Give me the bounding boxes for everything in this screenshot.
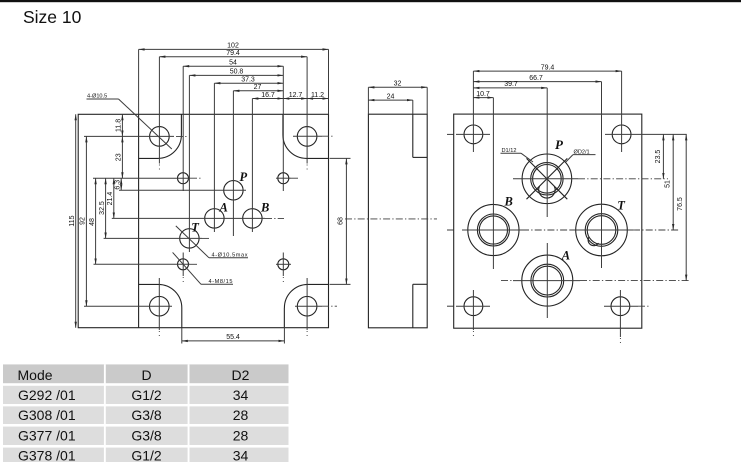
svg-text:G292 /01: G292 /01 [18, 387, 76, 403]
svg-text:D: D [141, 367, 151, 383]
svg-text:16.7: 16.7 [261, 92, 275, 99]
svg-text:G377 /01: G377 /01 [18, 427, 76, 443]
svg-text:54: 54 [229, 60, 237, 67]
svg-text:B: B [504, 194, 513, 208]
svg-text:A: A [561, 249, 570, 263]
svg-text:D2: D2 [232, 367, 250, 383]
svg-text:B: B [260, 200, 269, 214]
svg-text:G378 /01: G378 /01 [18, 448, 76, 462]
svg-text:12.7: 12.7 [289, 92, 303, 99]
svg-text:21.4: 21.4 [107, 192, 114, 206]
svg-text:Mode: Mode [18, 367, 53, 383]
svg-text:50.8: 50.8 [230, 69, 244, 76]
svg-text:11.2: 11.2 [311, 92, 324, 99]
svg-text:32: 32 [394, 81, 402, 88]
svg-text:23: 23 [116, 153, 123, 161]
svg-text:G1/2: G1/2 [131, 387, 162, 403]
svg-text:48: 48 [89, 218, 96, 226]
svg-text:76.5: 76.5 [677, 197, 684, 211]
svg-text:115: 115 [69, 215, 76, 226]
svg-text:G308 /01: G308 /01 [18, 407, 76, 423]
svg-text:P: P [555, 137, 564, 152]
svg-text:34: 34 [233, 387, 249, 403]
svg-text:A: A [219, 200, 228, 214]
svg-text:55.4: 55.4 [226, 334, 240, 341]
svg-text:39.7: 39.7 [504, 81, 518, 88]
svg-text:T: T [191, 221, 200, 235]
svg-text:32.5: 32.5 [99, 201, 106, 215]
svg-text:28: 28 [233, 407, 249, 423]
svg-text:G1/2: G1/2 [131, 448, 162, 462]
svg-text:66.7: 66.7 [529, 75, 543, 82]
svg-text:92: 92 [79, 217, 86, 225]
svg-text:37.3: 37.3 [241, 77, 255, 84]
svg-text:Size 10: Size 10 [23, 7, 82, 27]
svg-text:34: 34 [233, 448, 249, 462]
svg-text:11.8: 11.8 [116, 119, 123, 132]
svg-text:68: 68 [338, 217, 345, 225]
svg-text:51: 51 [665, 180, 672, 188]
svg-text:79.4: 79.4 [226, 50, 240, 57]
svg-text:6.3: 6.3 [115, 180, 122, 190]
svg-text:10.7: 10.7 [476, 91, 490, 98]
svg-text:24: 24 [387, 93, 395, 100]
svg-text:79.4: 79.4 [541, 64, 555, 71]
svg-text:23.5: 23.5 [655, 150, 662, 164]
svg-text:P: P [240, 170, 248, 184]
svg-text:G3/8: G3/8 [131, 427, 162, 443]
svg-text:28: 28 [233, 427, 249, 443]
svg-text:G3/8: G3/8 [131, 407, 162, 423]
svg-text:102: 102 [227, 43, 239, 50]
svg-text:T: T [617, 199, 626, 213]
svg-text:27: 27 [254, 84, 262, 91]
